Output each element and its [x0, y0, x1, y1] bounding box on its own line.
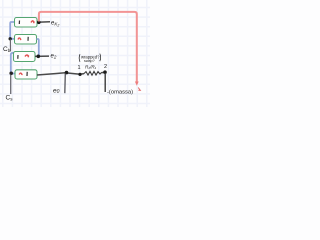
red tick mark	[138, 88, 140, 91]
block B1 (green box)	[15, 18, 38, 28]
wire: stub from block3 output to label e_2	[35, 55, 49, 57]
svg-text:Cb: Cb	[3, 46, 11, 53]
junction node 2	[103, 70, 107, 74]
background	[0, 0, 150, 107]
wire: drop from node 2 to output text	[104, 73, 106, 92]
wire: e_0 stub down	[64, 74, 67, 94]
block B3 (green box)	[14, 52, 36, 62]
junction node 1	[78, 73, 81, 76]
svg-text:Cs: Cs	[6, 95, 14, 102]
svg-text:1: 1	[78, 65, 81, 71]
wire: grey drop from block4 input junction to C_s terminal	[10, 75, 12, 95]
svg-text:e2: e2	[51, 54, 57, 60]
junction at block2 input	[9, 37, 12, 40]
wire: blue from block1 input down to block2 input	[10, 22, 14, 39]
svg-text:R₂/R₁: R₂/R₁	[85, 64, 97, 69]
svg-text:swap?: swap?	[84, 59, 95, 63]
wire: from resistor to node 2	[101, 71, 105, 74]
junction node e_K	[37, 21, 41, 25]
block B2 (green box)	[15, 35, 37, 45]
svg-text:e0: e0	[53, 87, 60, 95]
wire: red feedback from node e_K across the top and down to output	[39, 12, 137, 83]
junction node e_2	[37, 55, 41, 59]
junction at block4 input	[9, 72, 13, 76]
wire: main output line from block4	[37, 73, 84, 75]
svg-text:-(omassa): -(omassa)	[107, 90, 133, 96]
junction node e_0	[65, 71, 69, 75]
red arrowhead	[135, 82, 139, 86]
wire: blue from block2 output down to node e_2	[37, 39, 39, 56]
block B4 (green box)	[15, 70, 37, 79]
wire: stub from block1 output to node e_K	[37, 21, 50, 23]
wire: blue from block3 input down to block4 input	[11, 53, 15, 74]
resistor R (scribble)	[84, 71, 101, 75]
wire: grey drop from block2 input junction to C_b terminal	[9, 40, 11, 52]
annotation (two-line handwritten note in parentheses)	[79, 54, 101, 63]
svg-text:2: 2	[104, 64, 107, 70]
